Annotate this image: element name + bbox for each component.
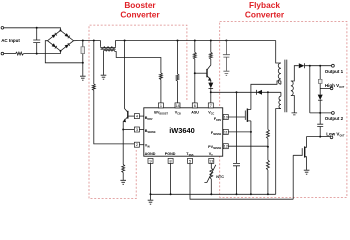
- svg-text:9: 9: [149, 159, 151, 163]
- node fuse bottom junction: [82, 62, 84, 64]
- node PV divider tap: [267, 146, 269, 148]
- node Fsense-source: [250, 131, 252, 133]
- svg-text:10: 10: [224, 116, 228, 120]
- wire Q4 gate: [293, 155, 302, 199]
- wire pin11 Fsense to source: [228, 131, 251, 133]
- capacitor C-bulk: [223, 41, 230, 71]
- wire pin8 PGND down: [170, 163, 172, 194]
- wire main HV rail: [125, 41, 281, 64]
- flyback transformer T2 aux winding: [279, 96, 281, 108]
- pin 11 Fsense: [222, 131, 225, 133]
- wire sense node down: [122, 130, 124, 165]
- diode D2 (Vcc, pointing down): [208, 83, 213, 89]
- transistor Q1 base wire to pin 4: [128, 115, 135, 117]
- bridge diode D-c (left-bottom edge): [52, 43, 56, 47]
- transistor Q2 emitter with arrow: [207, 76, 211, 80]
- node AGND: [150, 193, 152, 195]
- wire PV divider vertical: [267, 92, 269, 129]
- svg-text:6: 6: [194, 104, 196, 108]
- wire AC bottom left: [4, 53, 14, 55]
- diode D3 (aux to Vcc, pointing left): [257, 90, 262, 95]
- wire ASU branch to pin 6: [194, 59, 196, 103]
- transistor Q1 body: [127, 111, 129, 119]
- flyback transformer T2 core: [285, 60, 287, 113]
- node out2: [319, 112, 321, 114]
- node bridge top vertex: [60, 29, 62, 31]
- capacitor C-Vcc: [233, 163, 240, 194]
- flyback converter dashed boundary box: [220, 22, 347, 198]
- booster converter dashed boundary box: [89, 25, 187, 199]
- pin 10 Fdrv: [222, 116, 225, 118]
- node Vcc-cap branch: [236, 91, 238, 93]
- resistor R-sense (booster): [122, 165, 125, 173]
- wire D2 to Vcc node: [210, 88, 212, 103]
- wire Q3 drain riser: [251, 81, 281, 110]
- ground (input): [80, 76, 86, 80]
- wire ASU branch upper: [194, 41, 196, 53]
- pin 7 Vcc: [208, 103, 213, 108]
- bridge diode D-d (bottom-right edge): [65, 44, 69, 48]
- thermistor NTC: [210, 168, 213, 179]
- pin 2 Vin: [139, 144, 144, 146]
- flyback transformer T2 secondary winding: [291, 81, 293, 96]
- wire aux winding to gnd rail: [276, 109, 281, 195]
- wire fuse to ground: [82, 63, 84, 76]
- node B-sense: [122, 129, 124, 131]
- terminal Output 1: [332, 64, 335, 67]
- wire Vcc-cap branch vertical: [236, 92, 238, 163]
- bridge rectifier diamond: [48, 30, 74, 51]
- diode D4 output rectifier: [299, 63, 305, 68]
- fuse/fusible resistor F1 (grey): [82, 41, 84, 63]
- resistor Vin dropper: [92, 84, 95, 90]
- wire Vcc node to aux winding: [211, 92, 281, 96]
- transistor Q2 base wire: [195, 72, 207, 74]
- svg-text:iW3640: iW3640: [169, 126, 194, 135]
- resistor R-Vcc: [209, 52, 212, 59]
- booster transformer T1 primary winding: [100, 41, 102, 47]
- ground (T1 secondary): [101, 75, 107, 79]
- wire Vcb branch to pin 14: [177, 81, 179, 103]
- transistor Q1 booster switch collector wire: [125, 41, 128, 113]
- transistor Q2 collector wire: [207, 59, 211, 70]
- node out1-b: [319, 65, 321, 67]
- svg-text:8: 8: [170, 159, 172, 163]
- resistor input R (bottom AC line): [14, 53, 16, 55]
- svg-text:5: 5: [189, 159, 191, 163]
- wire pin5 Tsns to output gate: [190, 163, 293, 199]
- wire Q2 emitter to diode: [210, 80, 212, 83]
- svg-text:Converter: Converter: [245, 10, 285, 20]
- bridge diode D-a (left-top edge): [52, 34, 56, 38]
- wire sense node to pin 3: [123, 129, 134, 131]
- svg-text:2: 2: [136, 143, 138, 147]
- op-amp/controller IC U1 iW3640 body: [144, 108, 223, 156]
- wire Vcb branch upper: [177, 41, 179, 75]
- wire Vcc branch upper: [210, 41, 212, 53]
- wire Q1 emitter to sense node: [122, 121, 124, 129]
- node NTC gnd: [210, 193, 212, 195]
- terminal Low Vout: [330, 136, 333, 139]
- wire Q3 source down: [250, 121, 252, 194]
- transistor Q3 flyback MOSFET: [244, 111, 246, 120]
- wire Vin divider to pin 2: [94, 90, 135, 144]
- resistor R-PV lower: [266, 160, 269, 170]
- svg-text:14: 14: [175, 104, 179, 108]
- wire PV divider middle: [267, 139, 269, 161]
- wire PV divider lower: [267, 170, 269, 194]
- resistor R-ASU: [193, 52, 196, 59]
- wire Vin divider upper: [93, 41, 95, 85]
- node Q2 base tap: [194, 72, 196, 74]
- booster transformer T1 secondary winding: [104, 50, 115, 51]
- wire Q4 source to ground: [306, 157, 308, 170]
- node rail bulk cap: [225, 40, 227, 42]
- transistor Q1 emitter with arrow: [124, 117, 128, 121]
- diode D5 (to output 2, pointing down): [318, 95, 323, 100]
- capacitor X-cap across AC line: [33, 28, 40, 54]
- wire AGND to ground symbol: [150, 194, 152, 200]
- node Vin divider top: [93, 40, 95, 42]
- node C-Vcc gnd: [236, 193, 238, 195]
- wire T1 secondary left to ground: [103, 52, 105, 75]
- wire secondary bottom to ground: [291, 96, 294, 113]
- wire Low Vout tap: [320, 136, 330, 138]
- terminal Output 2: [332, 112, 335, 115]
- pin 12 PVsense: [222, 145, 225, 147]
- pin 14 Vcb: [175, 103, 180, 108]
- ground (Q4 source): [304, 170, 310, 174]
- svg-text:4: 4: [136, 115, 138, 119]
- pin 3 Bsense: [139, 129, 144, 131]
- wire ground rail: [151, 193, 276, 195]
- transistor Q4 output MOSFET: [301, 148, 303, 156]
- node cap top: [36, 27, 38, 29]
- resistor R-BV (to pin 1): [159, 73, 162, 80]
- bridge diode D-b (top-right edge): [65, 33, 69, 37]
- node rail ASU branch: [194, 40, 196, 42]
- wire T1 secondary output to BVboost resistor: [115, 52, 161, 74]
- wire output 2: [310, 112, 332, 114]
- pin 9 AGND: [148, 158, 153, 163]
- node out1-a: [309, 65, 311, 67]
- node PV divider gnd: [267, 193, 269, 195]
- svg-text:7: 7: [210, 104, 212, 108]
- wire pin13 Vt to NTC: [210, 163, 212, 168]
- svg-text:1: 1: [160, 104, 162, 108]
- svg-text:AGND: AGND: [145, 152, 156, 156]
- wire AC top: [4, 28, 61, 31]
- wire output 1: [305, 65, 332, 67]
- pin 13 Vt: [209, 158, 214, 163]
- pin 8 PGND: [168, 158, 173, 163]
- pin 6 ASU: [192, 103, 197, 108]
- node low vout: [319, 136, 321, 138]
- wire bridge negative return (left vertex to fuse node): [45, 41, 83, 63]
- node PGND: [170, 193, 172, 195]
- resistor R-PV upper: [266, 130, 269, 139]
- svg-text:PGND: PGND: [165, 152, 176, 156]
- transistor Q2 body: [206, 69, 208, 77]
- node Vcc: [210, 91, 212, 93]
- svg-text:12: 12: [224, 145, 228, 149]
- ground (C-bulk): [223, 71, 229, 75]
- wire secondary top to output diode: [291, 66, 299, 81]
- wire to ground (booster sense): [122, 173, 124, 181]
- svg-text:Output 2: Output 2: [325, 116, 344, 121]
- svg-text:AC Input: AC Input: [1, 38, 20, 43]
- fuse/resistor high-out (grey): [319, 66, 321, 95]
- AC input terminal bottom: [1, 52, 4, 55]
- node PV divider top: [267, 91, 269, 93]
- svg-text:11: 11: [224, 130, 228, 134]
- pin 5 Tsns: [188, 158, 193, 163]
- pin 4 Bdrv: [139, 115, 144, 117]
- wire High Vout tap: [320, 87, 330, 89]
- node source gnd: [250, 193, 252, 195]
- node rail Vcc branch: [210, 40, 212, 42]
- svg-text:NTC: NTC: [216, 175, 224, 179]
- terminal High Vout: [330, 87, 333, 90]
- resistor R-Vcb: [176, 74, 179, 81]
- wire NTC to gnd rail: [210, 179, 212, 194]
- node rail Vcb branch: [177, 40, 179, 42]
- AC input terminal top: [1, 27, 4, 30]
- node cap bottom: [36, 53, 38, 55]
- booster transformer T1 core: [101, 48, 116, 50]
- wire low vout to Q4 drain: [307, 137, 321, 148]
- wire resistor to pin 1: [160, 80, 162, 104]
- ground (AGND): [148, 200, 154, 204]
- svg-text:ASU: ASU: [191, 110, 199, 114]
- node rail booster switch: [124, 40, 126, 42]
- svg-text:Output 1: Output 1: [325, 69, 344, 74]
- svg-text:3: 3: [136, 128, 138, 132]
- pin 1 BVboost: [158, 103, 163, 108]
- wire output return branch: [309, 66, 311, 113]
- flyback transformer T2 primary winding: [278, 63, 281, 84]
- node bridge bottom vertex: [60, 50, 62, 52]
- wire pin9 AGND down: [150, 163, 152, 194]
- wire pin10 Fdrv to gate: [228, 116, 245, 118]
- wire DC bus rail: [74, 40, 101, 42]
- ground (secondary): [292, 113, 298, 115]
- wire AC bottom right: [25, 51, 61, 54]
- ground (booster sense): [120, 180, 126, 184]
- svg-text:Converter: Converter: [120, 10, 160, 20]
- wire pin12 PVsense to divider: [228, 145, 268, 147]
- svg-text:13: 13: [209, 159, 213, 163]
- capacitor C-out2: [317, 113, 323, 137]
- node fuse top: [82, 40, 84, 42]
